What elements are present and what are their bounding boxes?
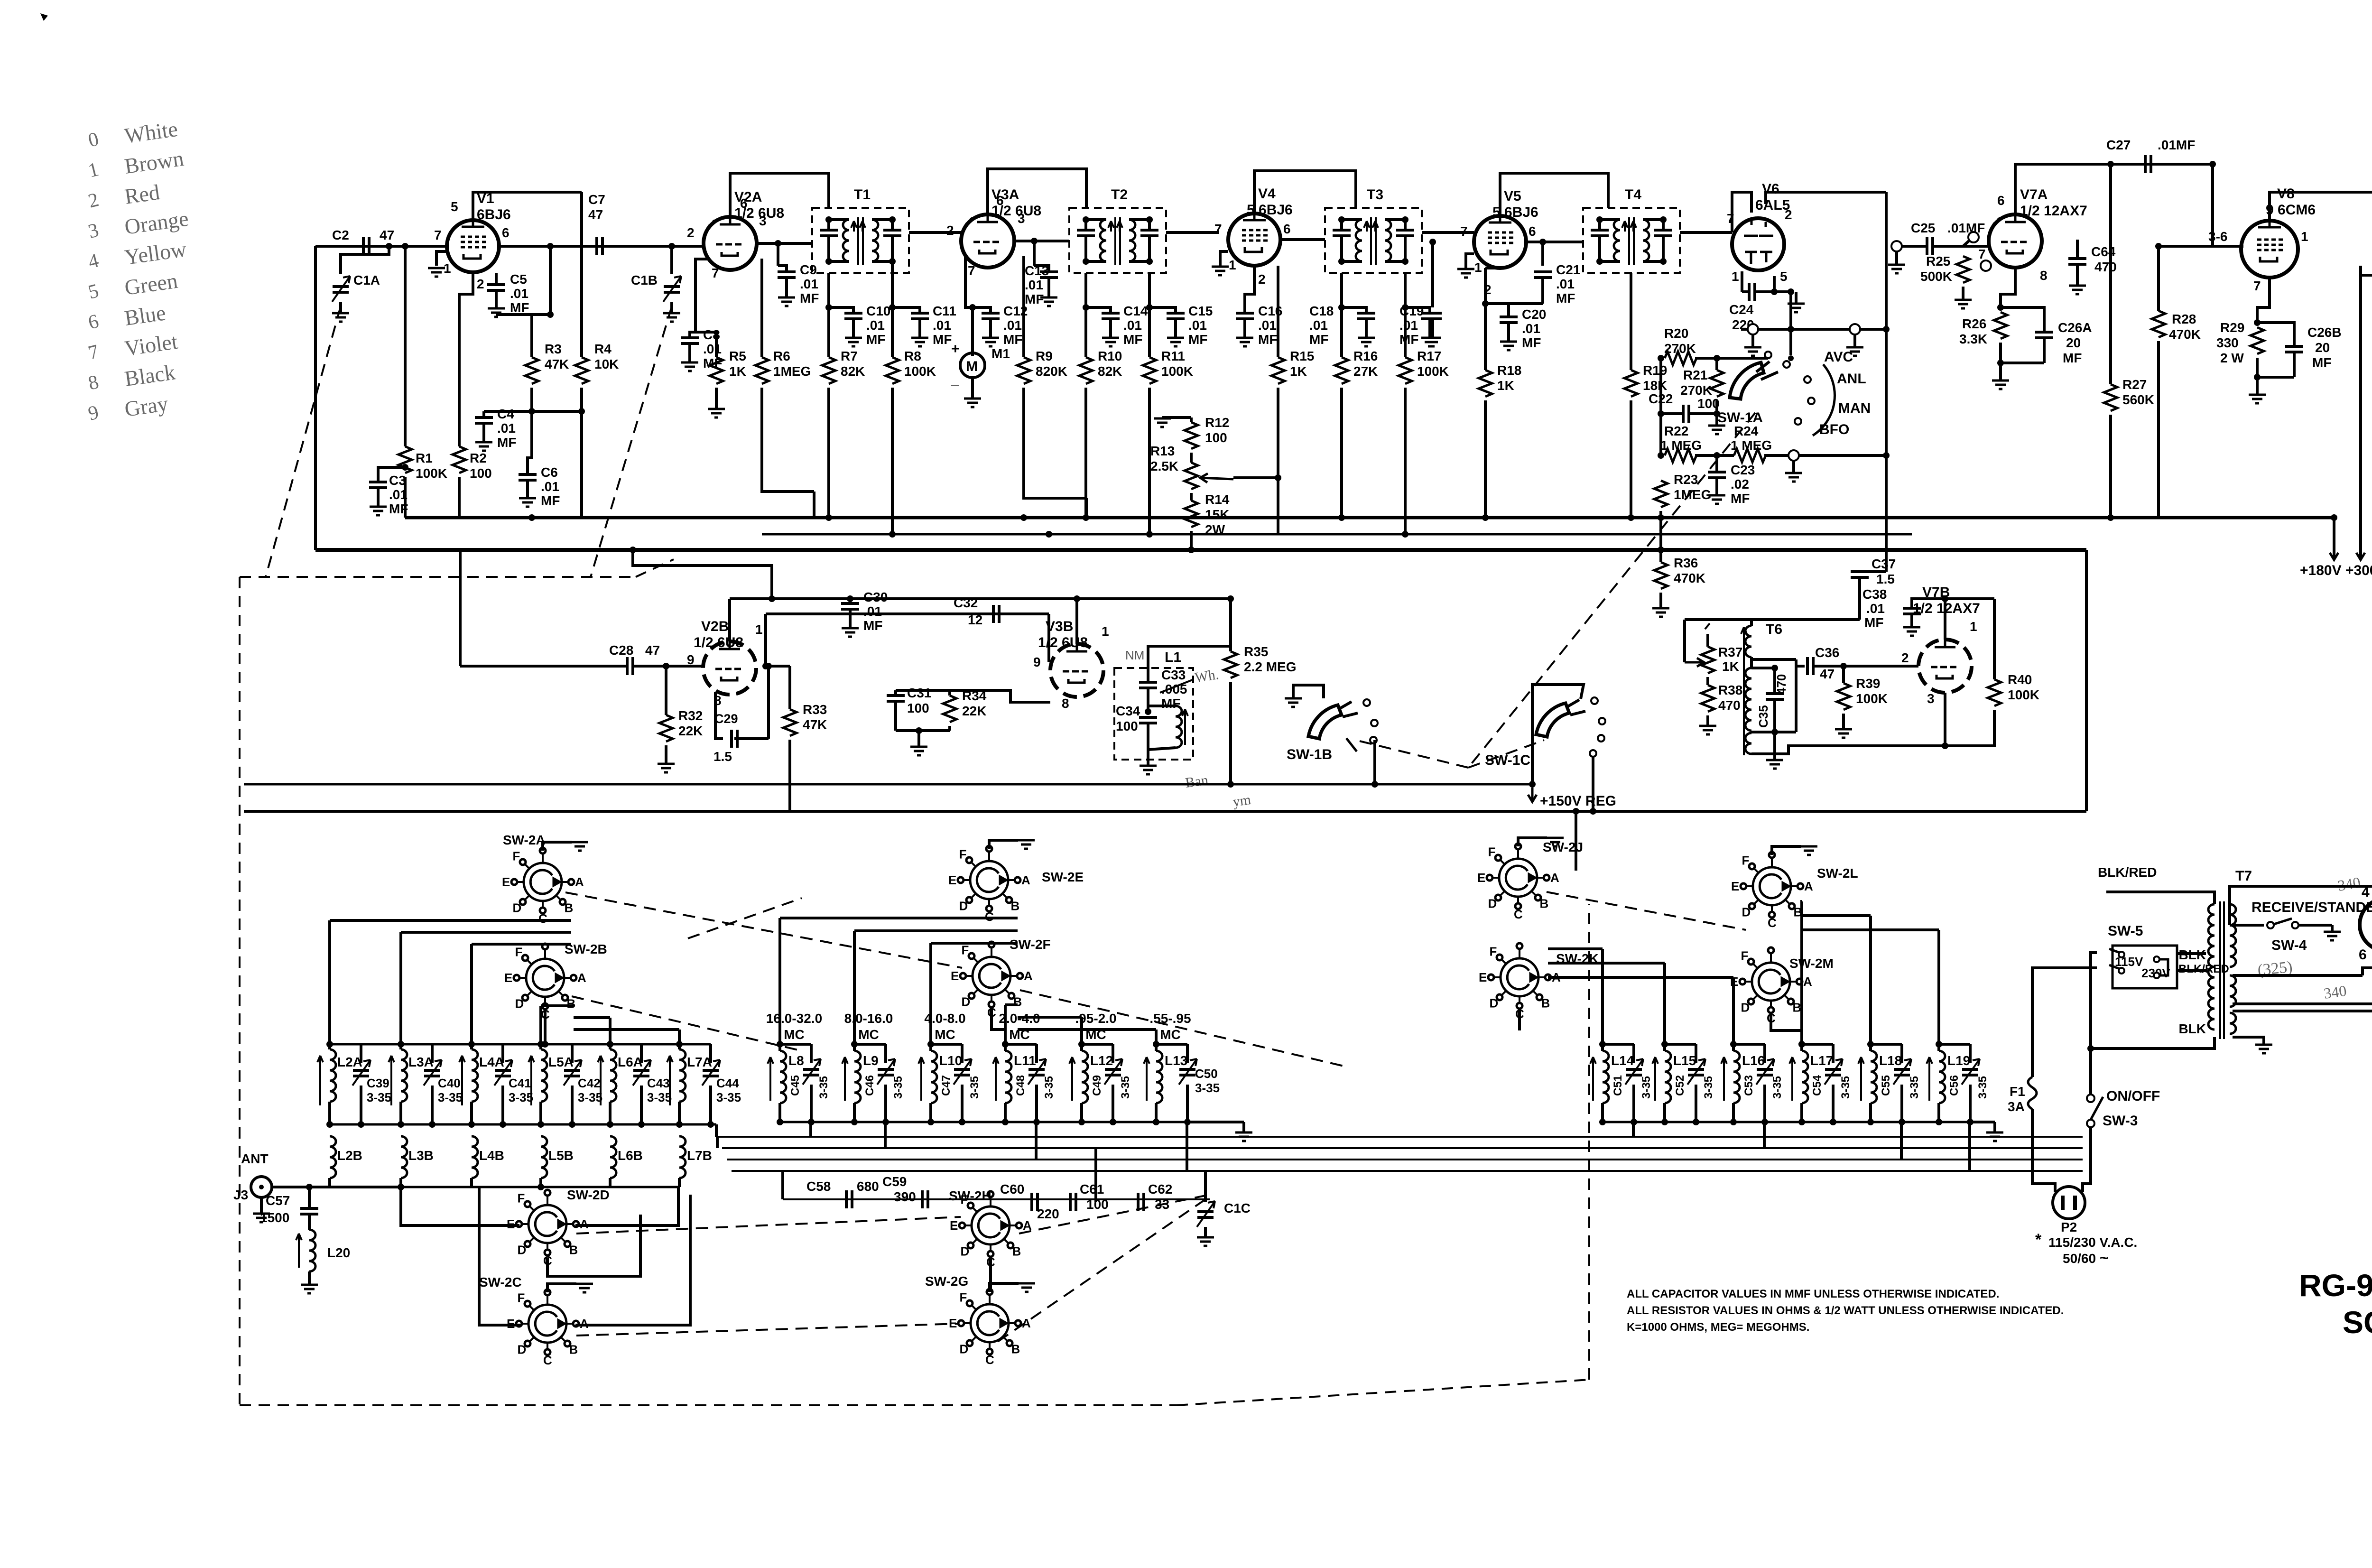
wire <box>1910 614 1913 626</box>
svg-text:1500: 1500 <box>260 1210 289 1225</box>
wire <box>1094 1148 1097 1202</box>
wire <box>849 599 852 603</box>
harness wire <box>929 943 932 1044</box>
wire <box>1190 418 1193 422</box>
svg-text:K=1000 OHMS, MEG= MEGOHMS.: K=1000 OHMS, MEG= MEGOHMS. <box>1627 1321 1809 1334</box>
resistor R3 <box>525 357 538 384</box>
harness wire <box>1663 963 1666 1044</box>
svg-text:F: F <box>1490 945 1497 959</box>
wire <box>308 1187 311 1208</box>
wire <box>1732 1103 1735 1122</box>
wire SW-1C to bus <box>1592 757 1594 812</box>
wire <box>1293 685 1324 698</box>
wire <box>1082 1043 1113 1046</box>
svg-text:100: 100 <box>1086 1197 1109 1212</box>
ground T7 <box>2255 1045 2272 1053</box>
wire <box>482 423 485 441</box>
svg-text:L4A: L4A <box>479 1055 504 1069</box>
junction <box>1338 258 1345 265</box>
inductor L9 <box>854 1051 861 1103</box>
svg-text:.01: .01 <box>1866 601 1885 616</box>
wire <box>988 169 1086 214</box>
harness wire <box>1800 901 1803 1044</box>
wire <box>896 729 950 732</box>
wire <box>1766 192 1886 204</box>
resistor R10 <box>1079 357 1093 384</box>
wire <box>1484 304 1487 370</box>
wire <box>891 307 894 357</box>
wire <box>829 260 849 263</box>
junction <box>1184 1119 1191 1125</box>
svg-text:.01: .01 <box>800 277 818 291</box>
svg-text:C52: C52 <box>1674 1075 1686 1096</box>
trimmer C50 <box>1179 1069 1195 1075</box>
bus +150V REG <box>244 783 1532 786</box>
harness wire <box>330 919 571 922</box>
wire <box>965 256 973 356</box>
wire <box>1365 319 1368 337</box>
arrow <box>1372 221 1378 232</box>
ground R26 <box>1992 380 2009 389</box>
SW-1A contact <box>1804 376 1811 383</box>
capacitor C18 <box>1357 313 1375 319</box>
junction <box>1658 514 1664 521</box>
wire <box>1431 242 1434 307</box>
wire <box>1405 307 1430 313</box>
svg-text:R1: R1 <box>416 451 433 465</box>
svg-text:1: 1 <box>2301 229 2308 244</box>
arrow <box>1789 1057 1795 1101</box>
svg-text:V2A: V2A <box>734 189 762 205</box>
wire <box>1643 260 1663 263</box>
wire <box>715 388 718 408</box>
wire <box>973 307 991 313</box>
svg-text:Ban: Ban <box>1184 772 1209 791</box>
ground C24 <box>1788 304 1805 312</box>
svg-text:2.5K: 2.5K <box>1150 459 1178 473</box>
wire <box>728 599 731 641</box>
svg-text:V5: V5 <box>1504 188 1521 204</box>
wire <box>777 243 779 266</box>
wire <box>688 343 691 362</box>
wire <box>1047 278 1050 297</box>
resistor R20 <box>1665 352 1696 365</box>
wire <box>1148 646 1231 668</box>
wire <box>1895 251 1898 264</box>
wire <box>670 302 673 313</box>
svg-text:MF: MF <box>863 618 882 633</box>
wire <box>1695 1085 1697 1122</box>
ground V4 pin1 <box>1212 267 1229 275</box>
svg-text:1/2 6U8: 1/2 6U8 <box>694 635 743 650</box>
junction <box>1188 547 1195 553</box>
wire <box>1795 292 1798 303</box>
arrow <box>1652 1057 1658 1101</box>
wire <box>2363 937 2372 975</box>
junction <box>542 1041 548 1048</box>
svg-text:BLK: BLK <box>2178 947 2206 962</box>
svg-text:R20: R20 <box>1664 326 1688 341</box>
T3 primary winding <box>1356 220 1362 261</box>
wire <box>1340 307 1343 357</box>
wire <box>896 689 950 692</box>
svg-text:R27: R27 <box>2122 377 2147 392</box>
svg-text:6: 6 <box>502 225 510 240</box>
wire <box>1773 668 1776 694</box>
junction <box>1693 1119 1699 1125</box>
wire <box>1485 304 1509 317</box>
wire <box>1242 1122 1245 1132</box>
wire <box>1485 302 1543 305</box>
arrow <box>1069 1057 1075 1101</box>
wire <box>1086 260 1106 263</box>
trimmer C42 <box>564 1070 580 1076</box>
wire <box>1900 1085 1903 1122</box>
ground C12 <box>982 338 999 346</box>
wire <box>810 1044 813 1063</box>
svg-text:MC: MC <box>935 1027 955 1042</box>
svg-text:C1A: C1A <box>353 273 380 288</box>
SW-5 contacts <box>2119 952 2159 978</box>
svg-text:L18: L18 <box>1879 1053 1902 1068</box>
wire <box>2293 332 2296 346</box>
svg-text:*: * <box>2035 1231 2042 1249</box>
svg-text:SW-2J: SW-2J <box>1543 840 1583 854</box>
wire filament <box>2233 1002 2372 1005</box>
arrow <box>1721 1057 1727 1101</box>
arrow <box>768 1057 773 1101</box>
svg-text:F1: F1 <box>2010 1084 2025 1099</box>
R37 wiper arrow <box>1685 658 1704 667</box>
junction <box>468 1041 475 1048</box>
terminal <box>1788 450 1799 461</box>
wire <box>778 1103 781 1122</box>
wire <box>431 1086 434 1124</box>
T7 rectifier filament winding <box>2230 1013 2236 1034</box>
wire <box>1186 1044 1189 1063</box>
SW-1C contact <box>1591 697 1598 704</box>
svg-text:B: B <box>1541 996 1550 1010</box>
harness wire <box>809 1122 812 1137</box>
capacitor C2 <box>363 237 369 255</box>
harness wire <box>1080 1017 1083 1044</box>
wire <box>780 1043 811 1046</box>
capacitor C8 <box>681 338 699 343</box>
wire L18 top <box>1869 1044 1872 1051</box>
wire <box>766 612 1049 615</box>
wire <box>495 290 498 307</box>
wire <box>1999 343 2002 363</box>
R37 top tick <box>1705 623 1710 629</box>
wire <box>2293 352 2296 377</box>
arrow <box>459 1056 465 1105</box>
trimmer C39 <box>353 1070 369 1076</box>
inductor L3A <box>401 1049 407 1102</box>
junction <box>825 304 832 311</box>
junction <box>1788 326 1794 333</box>
harness wire <box>401 931 571 934</box>
wire <box>575 1187 678 1225</box>
svg-text:.01: .01 <box>866 318 885 333</box>
svg-text:7: 7 <box>1460 224 1468 239</box>
trimmer C43 <box>633 1070 649 1076</box>
wire <box>1373 740 1376 784</box>
svg-text:BLK: BLK <box>2178 1021 2206 1036</box>
svg-text:270K: 270K <box>1664 341 1696 356</box>
trimmer C48 <box>1028 1069 1045 1075</box>
svg-text:R10: R10 <box>1098 349 1122 363</box>
inductor L2B <box>330 1136 336 1178</box>
wire <box>1147 668 1149 682</box>
tube V5 6BJ6 <box>1474 216 1526 268</box>
wire <box>1695 454 1734 457</box>
svg-text:L20: L20 <box>327 1245 350 1260</box>
svg-text:C51: C51 <box>1612 1075 1624 1096</box>
wire <box>1149 307 1176 313</box>
wire <box>1190 453 1193 463</box>
arrow <box>1182 709 1188 745</box>
svg-text:V4: V4 <box>1258 186 1276 202</box>
wire <box>810 1085 813 1122</box>
SW-1A contact <box>1765 352 1771 358</box>
svg-text:R5: R5 <box>729 349 746 363</box>
svg-text:2: 2 <box>477 277 484 291</box>
junction <box>762 663 769 669</box>
wire L1 tap arrow <box>1160 679 1194 693</box>
svg-text:.01: .01 <box>497 421 516 436</box>
svg-text:ANL: ANL <box>1837 371 1866 387</box>
inductor L16 <box>1733 1051 1740 1103</box>
resistor R15 <box>1271 357 1285 384</box>
rotary switch wafer SW-2L <box>1741 852 1803 918</box>
capacitor C24 <box>1749 283 1755 301</box>
wire <box>1162 416 1191 419</box>
svg-text:C32: C32 <box>954 595 978 610</box>
svg-text:L13: L13 <box>1165 1053 1187 1068</box>
junction <box>1997 304 2004 311</box>
svg-text:470K: 470K <box>2169 327 2201 342</box>
svg-text:+: + <box>951 341 960 357</box>
coil bank bottom bus <box>780 1121 1187 1123</box>
wire T2 secondary to V4 grid <box>1166 231 1219 234</box>
junction <box>1146 531 1153 538</box>
tube V3A 1/2 6U8 <box>961 214 1014 268</box>
svg-text:.01: .01 <box>1522 321 1540 336</box>
wire <box>2091 1037 2214 1048</box>
svg-text:3-35: 3-35 <box>892 1076 905 1099</box>
svg-text:B: B <box>569 1342 578 1356</box>
svg-text:1 MEG: 1 MEG <box>1660 438 1702 453</box>
wire <box>827 273 830 307</box>
wire <box>1086 218 1106 221</box>
wire <box>1005 1043 1037 1046</box>
resistor R14 <box>1185 501 1198 527</box>
ground R39 <box>1835 729 1852 738</box>
wire <box>1129 260 1149 263</box>
wire <box>1156 1043 1187 1046</box>
SW-1A contact <box>1808 398 1815 404</box>
svg-text:47K: 47K <box>803 717 827 732</box>
wire <box>1751 334 1754 346</box>
wire <box>272 1186 401 1188</box>
wire <box>762 388 814 492</box>
resistor R36 <box>1654 562 1668 589</box>
tuning unit dashed enclosure <box>240 559 1589 1405</box>
inductor L15 <box>1665 1051 1671 1103</box>
capacitor C36 <box>1807 657 1813 675</box>
svg-text:C39: C39 <box>367 1076 389 1090</box>
wire <box>539 1102 542 1124</box>
svg-text:R22: R22 <box>1664 424 1688 438</box>
wire <box>1431 319 1434 337</box>
rotary switch wafer SW-2D <box>516 1190 579 1255</box>
svg-text:560K: 560K <box>2122 392 2154 407</box>
svg-text:A: A <box>1024 969 1033 983</box>
wire L11 top <box>1004 1044 1007 1051</box>
svg-text:470: 470 <box>1774 674 1788 695</box>
svg-text:R35: R35 <box>1244 644 1268 659</box>
svg-text:6: 6 <box>1997 193 2005 208</box>
svg-text:3-35: 3-35 <box>1908 1076 1921 1099</box>
wire <box>2032 968 2097 1077</box>
svg-text:V3B: V3B <box>1046 619 1073 634</box>
svg-text:.01: .01 <box>863 604 882 619</box>
svg-text:D: D <box>962 994 971 1009</box>
svg-text:8.0-16.0: 8.0-16.0 <box>844 1011 893 1026</box>
dashed link SW-2C/G <box>576 1324 958 1336</box>
capacitor C13 <box>1040 272 1058 278</box>
capacitor C58 <box>846 1190 852 1208</box>
harness wire <box>884 1122 887 1148</box>
junction <box>1658 547 1664 553</box>
wire <box>989 319 992 337</box>
SW-1A contact <box>1795 418 1801 425</box>
ground SW-4 <box>2324 932 2341 940</box>
svg-text:L6B: L6B <box>618 1148 643 1163</box>
svg-text:9: 9 <box>1033 655 1041 669</box>
harness wire <box>1018 1016 1082 1019</box>
terminal <box>1891 241 1902 251</box>
wire <box>1962 287 1964 299</box>
svg-text:3-35: 3-35 <box>1702 1076 1715 1099</box>
svg-text:T1: T1 <box>854 187 871 203</box>
svg-text:100: 100 <box>1205 430 1227 445</box>
junction <box>1371 781 1378 788</box>
svg-text:E: E <box>951 969 959 983</box>
junction <box>1573 808 1579 815</box>
svg-text:6: 6 <box>740 196 748 211</box>
svg-text:V8: V8 <box>2277 186 2295 202</box>
svg-text:R14: R14 <box>1205 492 1230 507</box>
svg-text:7: 7 <box>2253 278 2261 293</box>
rotary switch wafer SW-2C <box>516 1290 579 1355</box>
wire <box>1484 400 1487 518</box>
wire <box>2157 246 2160 311</box>
svg-text:R33: R33 <box>803 702 827 717</box>
junction <box>1153 1119 1159 1125</box>
svg-text:3-35: 3-35 <box>817 1076 830 1099</box>
svg-text:L6A: L6A <box>618 1055 643 1069</box>
junction <box>1078 1041 1085 1048</box>
svg-text:V2B: V2B <box>701 619 729 634</box>
svg-text:R28: R28 <box>2172 312 2196 326</box>
svg-text:C50: C50 <box>1195 1067 1218 1081</box>
resistor R35 <box>1224 651 1237 678</box>
wire <box>360 1044 362 1063</box>
wire <box>339 302 342 313</box>
ground <box>1424 338 1441 346</box>
junction <box>547 243 554 250</box>
resistor R26 <box>1994 312 2007 339</box>
terminal <box>1981 260 1991 271</box>
wire <box>539 1178 542 1187</box>
ground SW-2C <box>576 1284 593 1292</box>
harness wire <box>1632 1122 1635 1137</box>
junction <box>1661 1041 1668 1048</box>
svg-text:20: 20 <box>2066 335 2081 350</box>
trimmer C52 <box>1688 1069 1704 1075</box>
wire <box>1340 388 1343 518</box>
svg-text:RECEIVE/STANDBY: RECEIVE/STANDBY <box>2252 900 2372 915</box>
wire <box>757 242 812 245</box>
wire <box>2159 245 2213 248</box>
wire <box>1858 577 1861 620</box>
svg-text:MF: MF <box>1025 292 1044 306</box>
wire <box>950 690 1050 702</box>
T7 primary winding <box>2208 904 2214 1030</box>
wire <box>781 1171 784 1199</box>
svg-text:R16: R16 <box>1353 349 1378 363</box>
wire <box>872 260 892 263</box>
svg-text:.01MF: .01MF <box>2158 138 2195 152</box>
trimmer C54 <box>1825 1069 1841 1075</box>
inductor L17 <box>1802 1051 1808 1103</box>
wire <box>1789 292 1792 329</box>
ground <box>332 313 349 322</box>
svg-text:1K: 1K <box>1497 378 1514 393</box>
wire <box>764 614 767 666</box>
svg-text:MF: MF <box>1161 696 1180 711</box>
wire <box>1902 245 1927 248</box>
svg-text:2.2 MEG: 2.2 MEG <box>1244 659 1296 674</box>
capacitor C23 <box>1708 472 1726 478</box>
bus <box>727 1159 2083 1160</box>
wire <box>1800 1103 1803 1122</box>
wire <box>2333 518 2335 557</box>
wire <box>1663 1103 1666 1122</box>
svg-text:R38: R38 <box>1718 683 1742 697</box>
ground C19 <box>1421 338 1438 346</box>
junction <box>1153 1041 1159 1048</box>
junction <box>847 595 853 602</box>
harness wire <box>1937 930 1940 1044</box>
svg-text:R23: R23 <box>1674 472 1698 487</box>
trimmer C1C <box>1197 1212 1214 1217</box>
junction <box>1658 355 1664 362</box>
svg-text:V7A: V7A <box>2020 187 2048 203</box>
junction <box>326 1121 333 1128</box>
svg-text:L9: L9 <box>863 1053 879 1068</box>
ground C18 <box>1358 338 1375 346</box>
svg-text:C4: C4 <box>497 407 514 421</box>
svg-text:22K: 22K <box>678 724 703 738</box>
svg-text:100K: 100K <box>1417 364 1449 379</box>
switch SW-3 <box>2087 1095 2094 1127</box>
svg-text:27K: 27K <box>1353 364 1378 379</box>
T6 upper winding <box>1745 626 1751 657</box>
svg-text:B: B <box>1010 899 1019 913</box>
harness wire <box>1800 928 1939 931</box>
